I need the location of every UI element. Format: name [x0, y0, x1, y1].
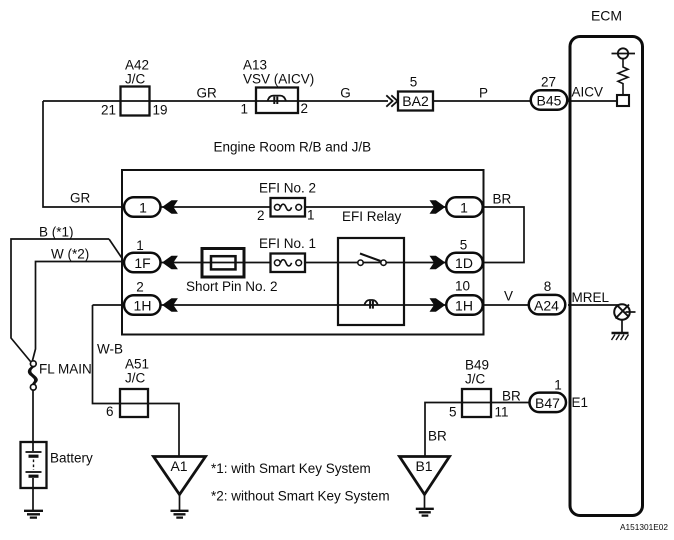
svg-text:11: 11: [495, 405, 509, 420]
svg-text:5: 5: [449, 405, 457, 420]
svg-text:1H: 1H: [134, 297, 152, 313]
svg-text:Battery: Battery: [50, 451, 93, 466]
svg-text:BR: BR: [428, 429, 447, 444]
svg-text:2: 2: [301, 101, 309, 116]
svg-text:VSV (AICV): VSV (AICV): [243, 72, 314, 87]
svg-text:B1: B1: [415, 458, 432, 474]
svg-text:19: 19: [153, 103, 168, 118]
svg-text:EFI No. 1: EFI No. 1: [259, 236, 316, 251]
svg-text:1D: 1D: [455, 255, 473, 271]
svg-text:8: 8: [544, 279, 552, 294]
svg-text:EFI Relay: EFI Relay: [342, 209, 402, 224]
svg-text:A13: A13: [243, 58, 267, 73]
svg-text:B45: B45: [537, 93, 562, 109]
svg-text:P: P: [479, 86, 488, 101]
svg-text:B49: B49: [465, 358, 489, 373]
svg-text:B47: B47: [535, 395, 560, 411]
svg-text:*1: with Smart Key System: *1: with Smart Key System: [211, 461, 371, 476]
svg-text:EFI No. 2: EFI No. 2: [259, 181, 316, 196]
svg-text:1: 1: [554, 378, 562, 393]
svg-text:B (*1): B (*1): [39, 225, 74, 240]
svg-text:FL MAIN: FL MAIN: [39, 362, 92, 377]
svg-text:J/C: J/C: [465, 372, 486, 387]
svg-text:E1: E1: [572, 395, 589, 410]
svg-text:2: 2: [257, 208, 265, 223]
svg-text:Engine Room R/B and J/B: Engine Room R/B and J/B: [214, 140, 372, 155]
svg-text:5: 5: [460, 238, 468, 253]
svg-text:10: 10: [455, 279, 470, 294]
svg-text:J/C: J/C: [125, 72, 146, 87]
svg-text:21: 21: [101, 103, 116, 118]
svg-text:J/C: J/C: [125, 371, 146, 386]
svg-text:6: 6: [106, 404, 114, 419]
svg-text:Short Pin No. 2: Short Pin No. 2: [186, 279, 278, 294]
svg-text:1F: 1F: [134, 255, 150, 271]
svg-text:1: 1: [240, 102, 248, 117]
svg-text:ECM: ECM: [591, 8, 622, 24]
svg-text:W-B: W-B: [97, 342, 123, 357]
svg-text:1: 1: [139, 199, 147, 215]
svg-text:AICV: AICV: [572, 85, 604, 100]
svg-text:BA2: BA2: [402, 93, 429, 109]
svg-text:A1: A1: [170, 458, 187, 474]
svg-text:V: V: [504, 289, 513, 304]
svg-text:A51: A51: [125, 357, 149, 372]
svg-text:GR: GR: [70, 191, 91, 206]
svg-text:5: 5: [410, 75, 418, 90]
svg-text:GR: GR: [197, 86, 218, 101]
svg-text:1: 1: [136, 238, 144, 253]
svg-text:BR: BR: [502, 389, 521, 404]
svg-text:1: 1: [307, 208, 315, 223]
svg-text:MREL: MREL: [572, 290, 610, 305]
svg-text:A42: A42: [125, 58, 149, 73]
svg-text:1: 1: [460, 199, 468, 215]
svg-text:27: 27: [541, 75, 556, 90]
svg-text:W (*2): W (*2): [51, 247, 89, 262]
svg-text:G: G: [340, 86, 351, 101]
svg-text:2: 2: [136, 280, 144, 295]
svg-text:BR: BR: [493, 192, 512, 207]
svg-text:A24: A24: [534, 297, 559, 313]
svg-text:1H: 1H: [455, 297, 473, 313]
svg-text:*2: without Smart Key System: *2: without Smart Key System: [211, 489, 390, 504]
svg-text:A151301E02: A151301E02: [620, 522, 668, 532]
